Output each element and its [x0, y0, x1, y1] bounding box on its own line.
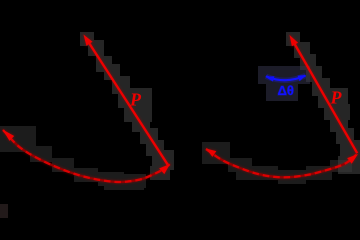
left line arrowhead (top) — [84, 35, 93, 46]
left arc start arrowhead — [3, 130, 15, 141]
right arc end arrowhead — [347, 154, 358, 164]
blue angle arc left arrowhead — [265, 76, 274, 81]
right arc start arrowhead — [206, 149, 216, 157]
right arc dim underlay — [206, 149, 357, 177]
compression-artifact band along left arc — [0, 126, 146, 190]
left arc end arrowhead — [159, 164, 170, 174]
compression-artifact band along left radius line — [80, 32, 174, 180]
right dashed arc (path traced) — [206, 149, 357, 177]
svg-text:Δθ: Δθ — [278, 83, 294, 98]
compression-artifact band along right arc — [202, 142, 352, 184]
blue angle arc glow — [266, 76, 306, 81]
soft red halo layer (compression blur) — [3, 35, 359, 183]
blue angle arc — [266, 76, 306, 81]
right line arrowhead (top) — [290, 35, 299, 46]
compression-artifact patch around blue angle annotation — [258, 66, 310, 101]
faint artifact at lower-left edge — [0, 204, 8, 218]
svg-text:P: P — [330, 88, 343, 108]
compression-artifact band along right radius line — [286, 32, 360, 174]
blue angle arc right arrowhead — [298, 75, 307, 81]
left dashed arc (path traced) — [3, 130, 170, 182]
svg-text:P: P — [129, 90, 142, 110]
left arc dim underlay — [3, 130, 170, 182]
right radius line r — [292, 39, 358, 154]
left radius line r — [86, 38, 168, 165]
